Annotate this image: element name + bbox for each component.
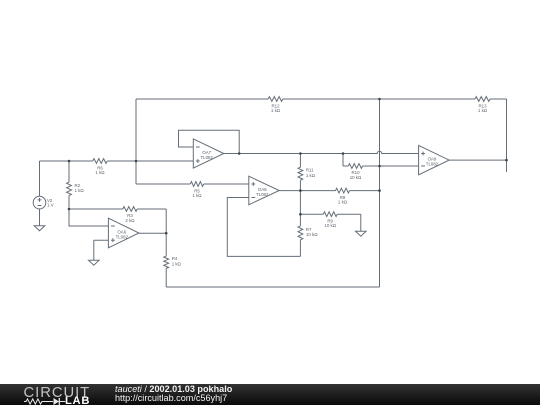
op-amp OA8: [249, 176, 279, 205]
wire: OA9 output: [449, 99, 506, 172]
wire: OA6 output: [139, 232, 166, 234]
resistor R10: [343, 154, 380, 180]
wire: OA8 output node down to R9/R7 node: [299, 191, 301, 215]
svg-text:10 kΩ: 10 kΩ: [350, 175, 362, 180]
svg-text:TL082: TL082: [200, 155, 213, 160]
voltage source V2: [33, 161, 53, 226]
resistor R12: [268, 97, 283, 114]
wire: OA6 + input to ground: [94, 240, 109, 260]
svg-text:1 kΩ: 1 kΩ: [338, 200, 348, 205]
wire: OA8 output: [279, 190, 300, 192]
resistor R13: [475, 97, 490, 114]
svg-text:1 kΩ: 1 kΩ: [75, 188, 85, 193]
svg-text:1 kΩ: 1 kΩ: [478, 108, 488, 113]
svg-text:10 kΩ: 10 kΩ: [306, 232, 318, 237]
op-amp OA9: [419, 145, 450, 174]
wire: input wire y=161 from V2 to OA7 + input: [40, 160, 194, 162]
svg-text:1 kΩ: 1 kΩ: [306, 173, 316, 178]
resistor R4: [164, 233, 182, 287]
wire: OA8 feedback loop bottom: [227, 198, 300, 257]
svg-text:TL082: TL082: [116, 235, 129, 240]
svg-text:2 kΩ: 2 kΩ: [125, 218, 135, 223]
resistor R6: [93, 159, 107, 175]
wire: right vertical feedback x=379.5: [379, 99, 381, 287]
wire: bottom feedback run y=287: [166, 286, 379, 288]
wire: OA7 feedback loop: [179, 130, 240, 153]
wire: node x379.5 to OA9 - input: [380, 165, 419, 167]
svg-text:1 kΩ: 1 kΩ: [271, 108, 281, 113]
wire: R3 row y=209: [69, 209, 166, 233]
CircuitLab logo: [0, 384, 110, 405]
ground (below V2): [34, 226, 45, 231]
resistor R9: [300, 212, 360, 228]
svg-text:TL082: TL082: [256, 192, 269, 197]
resistor R11: [298, 154, 316, 191]
resistor R2: [67, 161, 85, 209]
resistor R3: [123, 207, 137, 223]
resistor R8: [300, 188, 379, 204]
svg-text:1 V: 1 V: [47, 203, 54, 208]
footer bar: [0, 384, 540, 405]
svg-text:1 kΩ: 1 kΩ: [192, 193, 202, 198]
wire: main top feedback wire y=99: [136, 98, 507, 100]
wire + ground (right of R9): [356, 214, 367, 236]
svg-text:10 kΩ: 10 kΩ: [324, 223, 336, 228]
svg-text:1 kΩ: 1 kΩ: [172, 261, 182, 266]
op-amp OA7: [193, 139, 224, 168]
svg-text:TL082: TL082: [426, 161, 439, 166]
resistor R5: [190, 182, 203, 198]
wire: OA7 output run to OA9 + (hops over x=379.5): [224, 151, 419, 153]
wire: OA6 inverting input from node: [69, 209, 108, 226]
op-amp OA6: [108, 218, 138, 248]
resistor R7: [298, 214, 318, 256]
wire: left vertical branch x=136 from top wire down to R5 row: [135, 99, 137, 184]
wire: R5 row to OA8 + input y=184: [136, 183, 249, 185]
svg-text:LAB: LAB: [65, 395, 90, 405]
ground (OA6 non-inverting input): [89, 260, 100, 265]
svg-text:1 kΩ: 1 kΩ: [95, 170, 105, 175]
